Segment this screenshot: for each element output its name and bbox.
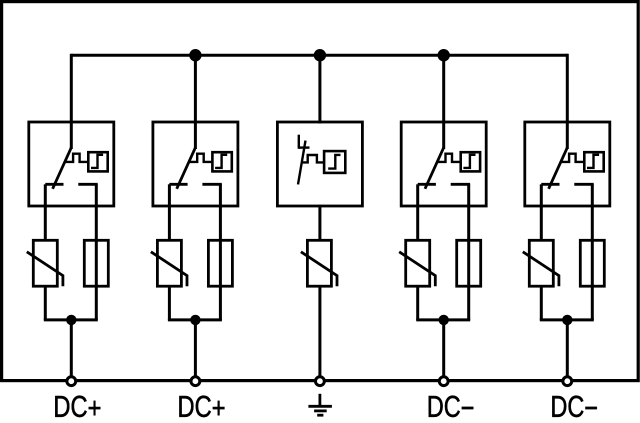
terminal 2: [191, 377, 200, 386]
contact bar right K1: [78, 183, 97, 186]
wire contact through fuse K1: [95, 184, 98, 320]
terminal 3: [316, 377, 325, 386]
contact bar right K2: [202, 183, 221, 186]
fuse body K2: [208, 240, 232, 286]
wire varistor to junction K2: [168, 286, 171, 320]
node bottom junction K5: [562, 315, 572, 325]
terminal 4: [439, 377, 448, 386]
wire contact to varistor K2: [168, 184, 171, 240]
SPD module box K2: [153, 122, 238, 206]
contact bar left K5: [541, 183, 559, 186]
wire contact through fuse K5: [591, 184, 594, 320]
varistor diagonal K3: [301, 252, 337, 286]
wire bus to switch K1: [70, 54, 73, 149]
contact bar right K5: [574, 183, 593, 186]
wire bus to switch K2: [194, 54, 197, 149]
varistor diagonal K5: [523, 252, 559, 286]
wire junction to terminal K2: [194, 320, 197, 377]
wire varistor to terminal K3: [318, 286, 321, 377]
SPD module box K5: [525, 122, 610, 206]
wire bottom join K1: [44, 318, 98, 321]
wire bottom join K4: [416, 318, 470, 321]
fuse body K1: [84, 240, 108, 286]
trip linkage K3: [302, 155, 325, 162]
node bottom junction K2: [190, 315, 200, 325]
disconnector stub K3: [298, 135, 300, 149]
status indicator box K2: [212, 152, 231, 171]
SPD module box K3: [277, 122, 362, 206]
node bottom junction K4: [439, 315, 449, 325]
wire varistor to junction K1: [44, 286, 47, 320]
wire varistor to junction K4: [416, 286, 419, 320]
wire bus to module K3: [318, 54, 321, 124]
fuse body K5: [580, 240, 604, 286]
wire bottom join K2: [168, 318, 222, 321]
varistor diagonal K1: [27, 252, 63, 286]
varistor body K3: [307, 240, 331, 286]
wire junction to terminal K4: [442, 320, 445, 377]
step glyph K4: [463, 155, 475, 168]
status indicator box K1: [88, 152, 107, 171]
varistor diagonal K4: [399, 252, 435, 286]
varistor body K5: [529, 240, 553, 286]
trip linkage K4: [437, 154, 461, 162]
trip linkage K2: [189, 154, 213, 162]
contact bar left K4: [418, 183, 436, 186]
wire contact through fuse K2: [219, 184, 222, 320]
disconnector blade K3: [298, 141, 306, 185]
varistor body K4: [406, 240, 430, 286]
terminal 5: [563, 377, 572, 386]
thermal disconnect blade K2: [177, 148, 196, 189]
status indicator box K4: [461, 152, 480, 171]
label DC− terminal: [429, 396, 473, 417]
contact bar left K1: [45, 183, 63, 186]
contact bar right K4: [451, 183, 470, 186]
wire bottom join K5: [540, 318, 594, 321]
wire bus to switch K5: [566, 54, 569, 149]
SPD module box K1: [29, 122, 114, 206]
terminal 1: [67, 377, 76, 386]
node bottom junction K1: [66, 315, 76, 325]
wire varistor to junction K5: [540, 286, 543, 320]
wire contact to varistor K5: [540, 184, 543, 240]
wire bus to switch K4: [442, 54, 445, 149]
fuse body K4: [457, 240, 481, 286]
wire top bus: [71, 54, 567, 57]
wire contact to varistor K4: [416, 184, 419, 240]
varistor body K2: [157, 240, 181, 286]
step glyph K3: [328, 155, 340, 169]
ground symbol: [308, 394, 332, 415]
status indicator box K3: [324, 151, 345, 173]
node bus junction 4: [438, 49, 450, 61]
thermal disconnect blade K5: [549, 148, 568, 189]
node bus junction 2: [189, 49, 201, 61]
step glyph K2: [215, 155, 227, 168]
wire module to varistor K3: [318, 205, 321, 241]
wire junction to terminal K5: [566, 320, 569, 377]
varistor body K1: [33, 240, 57, 286]
contact bar left K2: [169, 183, 187, 186]
wire contact through fuse K4: [467, 184, 470, 320]
SPD module box K4: [401, 122, 486, 206]
wire contact to varistor K1: [44, 184, 47, 240]
step glyph K1: [91, 155, 103, 168]
node bus junction 3: [314, 49, 326, 61]
step glyph K5: [587, 155, 599, 168]
status indicator box K5: [584, 152, 603, 171]
trip linkage K5: [561, 154, 585, 162]
thermal disconnect blade K1: [53, 148, 72, 189]
trip linkage K1: [65, 154, 89, 162]
thermal disconnect blade K4: [425, 148, 444, 189]
disconnector bar K3: [299, 146, 310, 148]
label DC+ terminal: [55, 396, 100, 417]
label DC+ terminal: [179, 396, 224, 417]
wire junction to terminal K1: [70, 320, 73, 377]
varistor diagonal K2: [151, 252, 187, 286]
label DC− terminal: [552, 396, 596, 417]
